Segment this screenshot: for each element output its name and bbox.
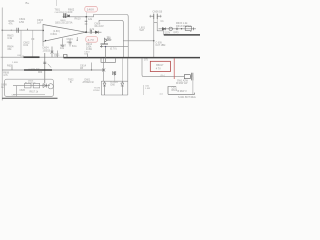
- wire jog to thick AC line: [154, 22, 164, 35]
- wire from apex to right: [86, 31, 101, 33]
- resistor body ticks on feedback wire: [85, 21, 88, 24]
- wire vertical x=122.3 bus to bridge: [121, 58, 123, 81]
- voltage callout 4.7V red box: [86, 37, 98, 43]
- svg-text:100p: 100p: [67, 41, 73, 44]
- diode hanging 1: [103, 81, 106, 95]
- svg-text:R610: R610: [75, 18, 82, 21]
- svg-text:S-901 BOT REG: S-901 BOT REG: [178, 96, 196, 99]
- wire left page edge vertical: [1, 8, 3, 101]
- component blob at bus start: [64, 55, 68, 58]
- svg-text:C605: C605: [19, 90, 25, 92]
- svg-text:0.01: 0.01: [23, 43, 29, 47]
- svg-text:B+: B+: [26, 1, 30, 5]
- svg-text:R60: R60: [38, 72, 43, 74]
- svg-text:3.3k: 3.3k: [7, 36, 13, 40]
- bridge top rail: [101, 80, 128, 82]
- wire secondary rail left y=16.8: [63, 15, 129, 58]
- capacitor plates on apex wire: [90, 30, 91, 34]
- svg-text:4.7k: 4.7k: [90, 28, 95, 31]
- op-amp IC601 error amplifier triangle: [43, 25, 86, 42]
- transistor Q602 cluster: [104, 38, 106, 44]
- wire vertical right x=193: [192, 77, 194, 95]
- resistor block 1: [25, 83, 32, 88]
- svg-text:4.7V: 4.7V: [88, 38, 95, 42]
- capacitor tick on rail: [22, 55, 24, 57]
- svg-text:wor: wor: [160, 93, 164, 96]
- node dot on input wire: [11, 30, 12, 31]
- wire inner rail y=20.3 with corner down at x=123.3: [99, 20, 123, 57]
- svg-text:(AC): (AC): [174, 31, 179, 34]
- wire faint vertical x=114.8: [114, 74, 116, 82]
- resistor outline box right end: [185, 26, 191, 30]
- svg-text:15k: 15k: [7, 47, 12, 51]
- svg-text:B RIW V: B RIW V: [178, 90, 188, 93]
- wire vertical x=142 below bus turning right: [142, 58, 185, 76]
- svg-text:100: 100: [68, 10, 73, 14]
- node dot near triangle base: [45, 40, 46, 41]
- capacitor C604 drop: [69, 40, 72, 47]
- svg-text:6.07 1BM: 6.07 1BM: [156, 45, 166, 47]
- resistor block on right rail: [184, 75, 190, 79]
- wire bottom right y=94.3: [168, 87, 195, 95]
- wire y=46.6 rail: [101, 46, 129, 48]
- component bowtie at bridge top: [113, 71, 116, 75]
- wire triangle lower vertex down: [42, 42, 44, 47]
- svg-text:AT8020-SI: AT8020-SI: [83, 81, 95, 84]
- svg-text:5uH: 5uH: [140, 29, 145, 32]
- wire long rail y=70: [2, 69, 103, 71]
- svg-text:IC601: IC601: [51, 33, 58, 36]
- svg-text:1.60B: 1.60B: [12, 62, 18, 64]
- tick with label on bus: [87, 53, 89, 57]
- svg-text:1SS53: 1SS53: [43, 49, 51, 52]
- diode hanging 2: [121, 81, 124, 95]
- wire inside box: [13, 85, 50, 87]
- svg-text:1B: 1B: [80, 67, 83, 70]
- diode D602 zener cluster on rail: [64, 13, 66, 18]
- thick highlighted segment on lower rail: [24, 69, 52, 71]
- svg-text:33u 16V: 33u 16V: [94, 25, 104, 28]
- svg-text:4 7V: 4 7V: [156, 67, 161, 70]
- svg-text:35W: 35W: [107, 39, 113, 42]
- wire L from bus area down to y=70 rail: [91, 63, 93, 71]
- svg-text:1uF: 1uF: [37, 21, 42, 24]
- capacitor C602 plates on wire: [17, 28, 19, 33]
- svg-text:140V: 140V: [87, 8, 95, 12]
- svg-text:JPWM: JPWM: [93, 90, 100, 92]
- wire faint vertical x=143.5 lower: [143, 85, 145, 95]
- bus step-down jog: [101, 47, 116, 63]
- svg-text:(0.7V): (0.7V): [110, 48, 117, 51]
- wire vertical feedback x=86: [85, 17, 87, 32]
- node dot at 152.5,40.8: [153, 40, 154, 41]
- svg-text:R609: R609: [7, 65, 13, 68]
- wire thick output line upper: [164, 34, 200, 36]
- node junction on left rail: [2, 30, 3, 31]
- svg-text:D613 RGP10: D613 RGP10: [176, 25, 191, 28]
- diode symbol in box: [43, 84, 47, 88]
- diode cross mark at junction: [102, 69, 105, 72]
- resistor block 2: [33, 83, 40, 88]
- svg-text:R617 1k: R617 1k: [30, 92, 39, 94]
- voltage callout red rectangle B+ regulator: [150, 61, 170, 71]
- bridge bottom rail: [101, 94, 128, 96]
- wire vertical inside box: [16, 86, 18, 97]
- red marker vertical line: [173, 58, 175, 79]
- wire vertical from input wire to ground bus: [20, 30, 22, 57]
- ground drop from triangle edge: [62, 38, 64, 45]
- bridge left vertical to bottom: [100, 81, 102, 95]
- wire bottom inside box: [13, 94, 45, 96]
- svg-text:M RIW JW: M RIW JW: [176, 82, 188, 85]
- transistor Q603 circle: [48, 84, 53, 89]
- rectifier bridge right vertical: [127, 58, 129, 95]
- sub-circuit rounded box bottom left: [5, 79, 54, 96]
- wire faint vertical x=32.5: [32, 30, 34, 57]
- node apex junction: [85, 31, 87, 33]
- diode D613 symbol row: [159, 28, 197, 30]
- wire input to error amp y=31: [2, 29, 43, 31]
- node dot at triangle input: [42, 30, 44, 32]
- capacitor ticks right: [192, 73, 193, 81]
- ground bus thick line: [64, 57, 201, 59]
- thick component bar on rail: [24, 56, 40, 58]
- svg-text:(B+): (B+): [161, 75, 165, 77]
- svg-text:4.7k: 4.7k: [3, 74, 8, 77]
- svg-text:B601: B601: [61, 20, 67, 22]
- transistor Q603 circle on row: [169, 27, 172, 30]
- wire stub top: [56, 0, 58, 6]
- svg-text:Q601 2SC1573A: Q601 2SC1573A: [55, 22, 73, 25]
- small drop with dot: [76, 37, 78, 41]
- wire thin ground rail left: [1, 56, 64, 58]
- voltage callout 140V red box: [85, 6, 98, 12]
- svg-text:115V: 115V: [165, 32, 171, 35]
- wire y=40.8 rail to right vertical: [123, 40, 154, 42]
- diode vertical with bar: [51, 47, 53, 58]
- svg-text:1/50: 1/50: [19, 20, 25, 24]
- wire stub from callout to node: [85, 12, 87, 16]
- rectifier bridge left vertical: [103, 58, 105, 81]
- thick bottom rail under box: [2, 97, 57, 99]
- svg-text:D60: D60: [111, 83, 116, 86]
- wire vertical x=44.8 to lower rail: [44, 53, 46, 84]
- node junction at 86,17.3: [86, 16, 88, 18]
- wire right vertical x=152.5: [153, 19, 155, 58]
- svg-text:C606 1B: C606 1B: [153, 10, 163, 13]
